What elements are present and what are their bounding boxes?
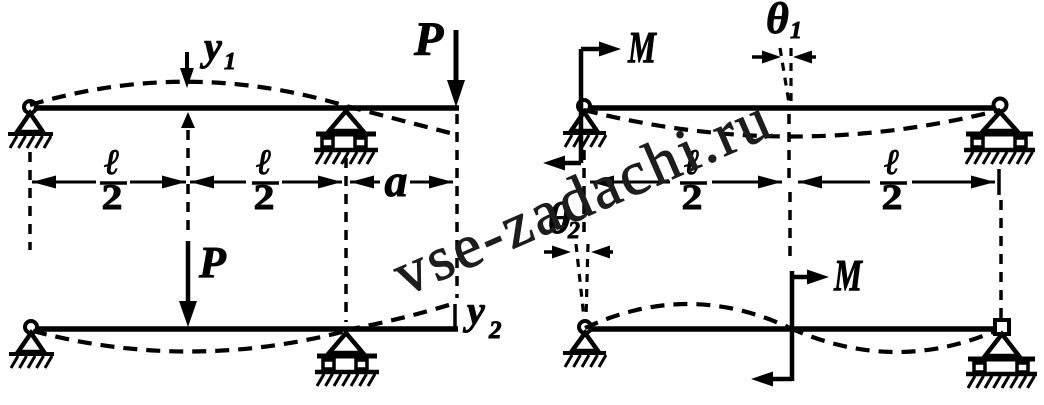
svg-text:2: 2 bbox=[254, 177, 275, 217]
svg-text:P: P bbox=[198, 238, 227, 287]
svg-text:θ: θ bbox=[766, 0, 789, 43]
svg-text:2: 2 bbox=[102, 177, 123, 217]
svg-text:P: P bbox=[413, 13, 444, 66]
svg-text:y: y bbox=[463, 288, 485, 333]
svg-text:1: 1 bbox=[790, 18, 802, 44]
svg-text:1: 1 bbox=[224, 49, 236, 75]
svg-text:M: M bbox=[627, 23, 657, 72]
svg-text:M: M bbox=[833, 251, 863, 300]
svg-text:ℓ: ℓ bbox=[256, 142, 271, 182]
svg-text:2: 2 bbox=[488, 317, 502, 344]
svg-text:a: a bbox=[385, 155, 408, 206]
svg-text:ℓ: ℓ bbox=[884, 142, 899, 182]
svg-text:y: y bbox=[200, 24, 222, 69]
svg-text:2: 2 bbox=[882, 177, 903, 217]
svg-text:ℓ: ℓ bbox=[104, 142, 119, 182]
